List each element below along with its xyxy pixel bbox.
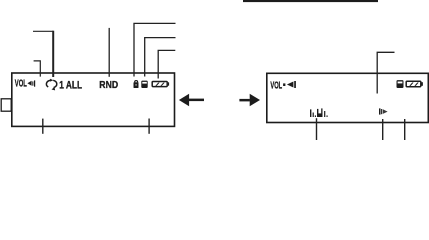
volume icon (left panel) — [27, 80, 35, 86]
callout: play tick — [382, 119, 384, 140]
callout: lock — [134, 23, 176, 76]
level bars icon — [310, 108, 328, 117]
callout: bottom tick left — [42, 119, 44, 134]
svg-text:1 ALL: 1 ALL — [59, 80, 82, 92]
left LCD panel outline — [12, 73, 175, 126]
callout: right area tick — [404, 119, 406, 140]
repeat icon — [46, 79, 56, 91]
lock icon — [134, 81, 139, 88]
svg-text:RND: RND — [99, 80, 118, 91]
svg-text:VOL: VOL — [15, 79, 27, 90]
battery icon (right panel) — [406, 81, 423, 87]
svg-text:VOL: VOL — [270, 81, 282, 92]
callout: right panel interior — [377, 52, 394, 93]
disc icon (left panel) — [141, 81, 147, 88]
callout: RND — [108, 28, 110, 77]
volume icon (right panel) — [283, 81, 296, 88]
disc icon (right panel) — [397, 80, 404, 88]
play indicator icon — [379, 108, 388, 114]
callout: repeat icon (thick bracket) — [33, 30, 53, 32]
left connector tab — [1, 99, 11, 111]
battery icon (left panel) — [152, 82, 169, 87]
top rule — [243, 0, 378, 2]
right arrow — [239, 94, 260, 107]
callout: battery — [158, 50, 175, 78]
left arrow — [179, 94, 204, 107]
callout: disc — [145, 38, 176, 77]
callout: bottom tick right — [148, 119, 150, 134]
right LCD panel outline — [267, 73, 429, 122]
callout: volume icon (small bracket) — [34, 61, 41, 77]
callout: level bars tick — [316, 118, 318, 140]
